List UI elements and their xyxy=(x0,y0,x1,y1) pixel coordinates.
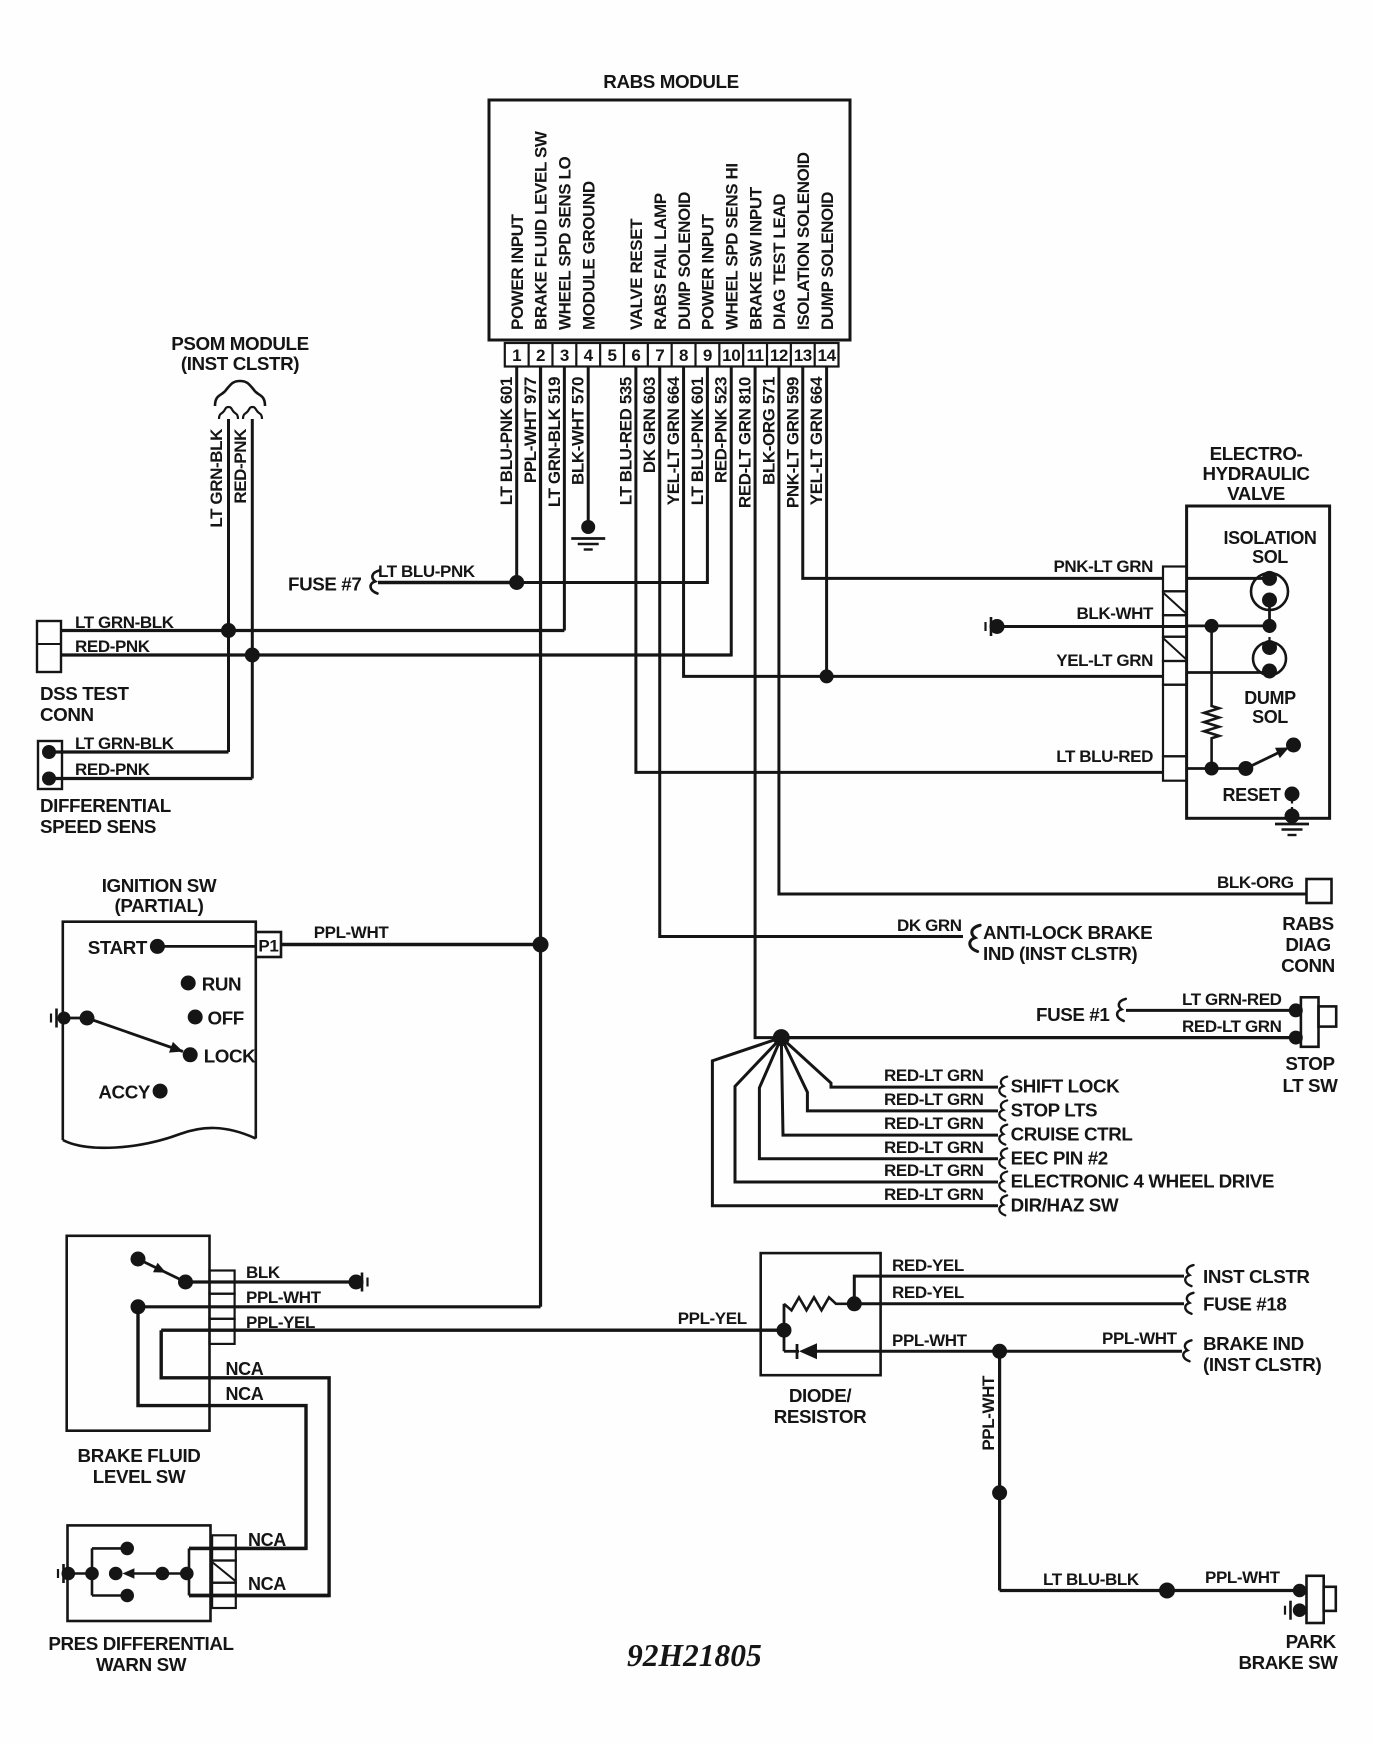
dump solenoid circle L2 xyxy=(1253,642,1286,675)
wire BLK xyxy=(186,1280,357,1283)
resistor R-valve xyxy=(1204,629,1219,766)
svg-text:ELECTRO-: ELECTRO- xyxy=(1210,443,1303,464)
junction DSS RED-PNK xyxy=(245,648,260,663)
RABS module pin function labels xyxy=(508,130,837,330)
svg-text:DIODE/: DIODE/ xyxy=(789,1385,852,1406)
svg-text:PNK-LT GRN 599: PNK-LT GRN 599 xyxy=(783,377,802,508)
junction PPL-WHT down xyxy=(992,1344,1007,1359)
wire branch ELECTRONIC 4WD xyxy=(735,1038,998,1182)
wire RED-LT GRN main xyxy=(781,1036,1296,1039)
wire PPL-YEL xyxy=(161,1328,784,1331)
svg-text:FUSE #7: FUSE #7 xyxy=(288,574,361,595)
diode/resistor box xyxy=(761,1253,881,1375)
svg-text:PPL-WHT: PPL-WHT xyxy=(246,1288,322,1307)
wire DIFF LT GRN-BLK xyxy=(42,745,56,759)
junction DSS LT GRN-BLK xyxy=(221,623,236,638)
squiggle ELECTRONIC 4 WHEEL DRIVE xyxy=(999,1172,1007,1192)
svg-text:EEC PIN #2: EEC PIN #2 xyxy=(1011,1147,1108,1168)
squiggle STOP LTS xyxy=(999,1100,1007,1120)
wire BLK-WHT xyxy=(997,625,1187,628)
wire NCA4 row xyxy=(189,1594,329,1597)
svg-text:2: 2 xyxy=(536,346,545,365)
svg-text:DSS TEST: DSS TEST xyxy=(40,683,130,704)
svg-text:RESET: RESET xyxy=(1223,785,1281,805)
wire NCA2 path xyxy=(138,1307,306,1549)
svg-text:9: 9 xyxy=(703,346,712,365)
wire PPL-WHT vertical xyxy=(998,1351,1001,1590)
reset dashed to ground xyxy=(1291,800,1293,811)
connector P1 xyxy=(256,932,281,957)
svg-text:1: 1 xyxy=(512,346,521,365)
resistor R1 xyxy=(784,1297,854,1310)
brake fluid switch arm xyxy=(131,1252,146,1267)
wire pin11 RED-LT GRN 810 xyxy=(755,367,781,1038)
wire branch EEC PIN 2 xyxy=(759,1038,998,1159)
RABS module U1 box xyxy=(489,100,850,340)
DSS test connector xyxy=(37,621,61,672)
pres diff connector diagonal xyxy=(212,1562,236,1581)
wire isolation sol to blk-wht node xyxy=(1268,600,1271,626)
svg-text:DIAG: DIAG xyxy=(1285,934,1330,955)
svg-text:PPL-WHT: PPL-WHT xyxy=(1102,1329,1178,1348)
svg-text:DIR/HAZ SW: DIR/HAZ SW xyxy=(1011,1194,1119,1215)
svg-text:WARN SW: WARN SW xyxy=(96,1654,187,1675)
svg-text:IGNITION SW: IGNITION SW xyxy=(102,875,217,896)
svg-text:BLK-WHT 570: BLK-WHT 570 xyxy=(569,377,588,485)
diode D1 xyxy=(784,1350,799,1353)
svg-text:RED-PNK: RED-PNK xyxy=(231,428,250,504)
svg-text:BRAKE FLUID LEVEL SW: BRAKE FLUID LEVEL SW xyxy=(532,130,551,330)
splice LT BLU-BLK / PPL-WHT xyxy=(1159,1583,1175,1599)
svg-text:RED-YEL: RED-YEL xyxy=(892,1256,964,1275)
svg-text:14: 14 xyxy=(818,346,837,365)
svg-text:LT BLU-BLK: LT BLU-BLK xyxy=(1043,1570,1140,1589)
svg-text:CONN: CONN xyxy=(1281,955,1335,976)
svg-text:PPL-WHT: PPL-WHT xyxy=(1205,1568,1281,1587)
squiggle BRAKE IND xyxy=(1183,1340,1191,1361)
svg-text:NCA: NCA xyxy=(248,1530,286,1550)
valve connector cells xyxy=(1163,567,1187,781)
svg-text:(PARTIAL): (PARTIAL) xyxy=(115,895,204,916)
stop lt sw connector xyxy=(1289,1003,1303,1017)
svg-text:YEL-LT GRN 664: YEL-LT GRN 664 xyxy=(664,376,683,505)
wire pin12 BLK-ORG 571 xyxy=(779,367,1307,895)
svg-text:SHIFT LOCK: SHIFT LOCK xyxy=(1011,1076,1121,1097)
svg-text:92H21805: 92H21805 xyxy=(627,1638,762,1673)
svg-text:LT BLU-PNK 601: LT BLU-PNK 601 xyxy=(497,377,516,505)
ground for BLK-WHT xyxy=(990,619,1005,634)
svg-text:(INST CLSTR): (INST CLSTR) xyxy=(1203,1354,1321,1375)
junction resistor top xyxy=(1205,619,1219,633)
svg-text:ISOLATION SOLENOID: ISOLATION SOLENOID xyxy=(794,152,813,330)
svg-text:SPEED SENS: SPEED SENS xyxy=(40,816,156,837)
svg-text:SOL: SOL xyxy=(1252,707,1288,727)
svg-text:6: 6 xyxy=(631,346,640,365)
wire DSS RED-PNK xyxy=(61,653,731,656)
wire branch CRUISE CTRL xyxy=(781,1038,998,1136)
svg-text:DK GRN: DK GRN xyxy=(897,916,962,935)
svg-text:BLK-WHT: BLK-WHT xyxy=(1076,604,1154,623)
wire pin14 YEL-LT GRN 664 xyxy=(825,367,828,677)
svg-text:RED-LT GRN: RED-LT GRN xyxy=(884,1138,984,1157)
squiggle CRUISE CTRL xyxy=(999,1125,1007,1145)
squiggle anti-lock xyxy=(970,925,980,951)
PSOM brace small right xyxy=(243,407,262,419)
module ground symbol xyxy=(571,537,605,540)
svg-text:PSOM MODULE: PSOM MODULE xyxy=(171,333,309,354)
ignition OFF contact xyxy=(188,1010,203,1025)
svg-text:PPL-YEL: PPL-YEL xyxy=(678,1309,747,1328)
squiggle INST CLSTR xyxy=(1185,1265,1193,1286)
wire pin4 BLK-WHT 570 to module ground xyxy=(587,367,590,529)
ignition rotor arm xyxy=(64,1017,87,1020)
wire pin6 LT BLU-RED 535 xyxy=(636,367,1164,773)
svg-text:POWER INPUT: POWER INPUT xyxy=(508,213,527,330)
wire pin3 LT GRN-BLK 519 xyxy=(563,367,566,631)
wire branch DIR/HAZ xyxy=(712,1038,998,1206)
wire pin9 LT BLU-PNK 601 xyxy=(517,367,708,583)
svg-text:LT BLU-RED 535: LT BLU-RED 535 xyxy=(616,377,635,505)
svg-text:10: 10 xyxy=(722,346,740,365)
svg-text:INST CLSTR: INST CLSTR xyxy=(1203,1266,1310,1287)
splice PPL-WHT xyxy=(992,1485,1007,1500)
svg-text:PRES DIFFERENTIAL: PRES DIFFERENTIAL xyxy=(48,1633,233,1654)
svg-text:5: 5 xyxy=(608,346,617,365)
PSOM brace small left xyxy=(219,407,238,419)
wire LT GRN-RED xyxy=(1126,1009,1296,1012)
svg-text:RED-YEL: RED-YEL xyxy=(892,1283,964,1302)
svg-text:SOL: SOL xyxy=(1252,547,1288,567)
brake fluid level sw box xyxy=(67,1236,210,1431)
svg-text:CONN: CONN xyxy=(40,704,94,725)
svg-text:POWER INPUT: POWER INPUT xyxy=(699,213,718,330)
svg-text:YEL-LT GRN 664: YEL-LT GRN 664 xyxy=(807,376,826,505)
svg-text:LT GRN-BLK: LT GRN-BLK xyxy=(207,428,226,528)
wire FUSE7 to pin1 xyxy=(378,581,517,584)
svg-text:VALVE RESET: VALVE RESET xyxy=(627,218,646,330)
svg-text:PNK-LT GRN: PNK-LT GRN xyxy=(1053,557,1153,576)
ignition ACCY contact xyxy=(153,1084,168,1099)
svg-text:4: 4 xyxy=(584,346,594,365)
wire branch SHIFT LOCK xyxy=(781,1038,998,1088)
svg-text:DIFFERENTIAL: DIFFERENTIAL xyxy=(40,795,171,816)
wire RED-YEL 1 xyxy=(854,1276,1184,1304)
ignition ground xyxy=(55,1009,58,1028)
svg-text:LT GRN-RED: LT GRN-RED xyxy=(1182,990,1282,1009)
svg-text:HYDRAULIC: HYDRAULIC xyxy=(1203,463,1311,484)
wire LT BLU-BLK xyxy=(1000,1589,1300,1592)
wire branch STOP LTS xyxy=(781,1038,998,1111)
svg-text:BLK: BLK xyxy=(246,1263,281,1282)
electro-hydraulic valve box xyxy=(1187,506,1330,818)
ignition RUN contact xyxy=(181,976,196,991)
svg-text:IND (INST CLSTR): IND (INST CLSTR) xyxy=(983,943,1137,964)
svg-text:FUSE #1: FUSE #1 xyxy=(1036,1004,1109,1025)
wire PPL-WHT brake fluid xyxy=(131,1299,146,1314)
wire LT BLU-RED row xyxy=(1187,767,1246,770)
RABS diag connector box xyxy=(1307,879,1332,903)
svg-text:LT BLU-PNK 601: LT BLU-PNK 601 xyxy=(688,377,707,505)
svg-text:PARK: PARK xyxy=(1286,1631,1337,1652)
pres diff ground xyxy=(62,1564,65,1583)
valve connector diagonal 2 xyxy=(1163,638,1187,660)
module ground dot xyxy=(581,520,595,534)
svg-text:RED-LT GRN: RED-LT GRN xyxy=(884,1114,984,1133)
svg-text:RED-LT GRN: RED-LT GRN xyxy=(884,1185,984,1204)
park brake ground xyxy=(1289,1601,1292,1620)
reset switch SW-valve xyxy=(1238,761,1253,776)
svg-text:PPL-WHT 977: PPL-WHT 977 xyxy=(521,377,540,483)
wire NCA1 path xyxy=(161,1330,329,1595)
svg-text:DK GRN 603: DK GRN 603 xyxy=(640,377,659,473)
svg-text:PPL-WHT: PPL-WHT xyxy=(979,1375,998,1451)
svg-text:RUN: RUN xyxy=(202,974,242,995)
wire pin8 YEL-LT GRN 664 xyxy=(684,367,1164,677)
svg-text:LT BLU-PNK: LT BLU-PNK xyxy=(378,562,476,581)
junction RED-YEL xyxy=(847,1296,862,1311)
svg-text:YEL-LT GRN: YEL-LT GRN xyxy=(1056,651,1153,670)
svg-text:ACCY: ACCY xyxy=(98,1082,150,1103)
svg-text:NCA: NCA xyxy=(226,1359,264,1379)
squiggle EEC PIN #2 xyxy=(999,1148,1007,1168)
BLK ground xyxy=(349,1275,364,1290)
wire PPL-WHT diode out xyxy=(817,1350,1182,1353)
ignition LOCK contact xyxy=(183,1047,198,1062)
svg-text:BRAKE SW INPUT: BRAKE SW INPUT xyxy=(746,186,765,330)
svg-text:DUMP: DUMP xyxy=(1244,688,1296,708)
svg-text:RED-LT GRN: RED-LT GRN xyxy=(884,1066,984,1085)
pres differential warn sw box xyxy=(68,1525,211,1621)
pres diff inner contacts xyxy=(68,1572,92,1575)
svg-text:RABS MODULE: RABS MODULE xyxy=(603,71,738,92)
svg-text:PPL-WHT: PPL-WHT xyxy=(314,923,390,942)
wire PPL-WHT ignition xyxy=(281,943,541,947)
svg-text:LT GRN-BLK 519: LT GRN-BLK 519 xyxy=(545,377,564,507)
fuse F7 squiggle xyxy=(371,570,380,593)
svg-text:RABS FAIL LAMP: RABS FAIL LAMP xyxy=(651,193,670,330)
svg-text:LT SW: LT SW xyxy=(1282,1075,1338,1096)
svg-text:ISOLATION: ISOLATION xyxy=(1223,528,1316,548)
svg-text:BLK-ORG 571: BLK-ORG 571 xyxy=(759,377,778,485)
svg-text:(INST CLSTR): (INST CLSTR) xyxy=(181,353,299,374)
wire PSOM RED-PNK vertical xyxy=(251,419,254,779)
svg-text:FUSE #18: FUSE #18 xyxy=(1203,1294,1286,1315)
svg-text:NCA: NCA xyxy=(226,1384,264,1404)
svg-text:START: START xyxy=(88,937,148,958)
wire NCA3 row xyxy=(189,1547,306,1550)
junction resistor bottom xyxy=(1205,762,1219,776)
PSOM brace large xyxy=(215,381,265,406)
svg-text:8: 8 xyxy=(679,346,688,365)
svg-text:P1: P1 xyxy=(258,937,278,956)
node brake sw junction xyxy=(773,1029,790,1046)
svg-text:RED-LT GRN: RED-LT GRN xyxy=(884,1161,984,1180)
wire pin2 PPL-WHT 977 vertical xyxy=(539,367,542,1307)
svg-text:DIAG TEST LEAD: DIAG TEST LEAD xyxy=(770,194,789,330)
pres diff connector cells xyxy=(212,1535,236,1560)
svg-text:RABS: RABS xyxy=(1282,913,1334,934)
svg-text:BLK-ORG: BLK-ORG xyxy=(1217,873,1294,892)
wire DIFF RED-PNK xyxy=(42,772,56,786)
svg-text:MODULE GROUND: MODULE GROUND xyxy=(579,181,598,330)
svg-text:BRAKE SW: BRAKE SW xyxy=(1238,1652,1338,1673)
svg-text:BRAKE FLUID: BRAKE FLUID xyxy=(78,1445,201,1466)
svg-text:OFF: OFF xyxy=(208,1008,244,1029)
junction pin8/pin14 YEL-LT GRN xyxy=(820,669,834,683)
wire PSOM LT GRN-BLK vertical xyxy=(227,419,230,752)
svg-text:RED-LT GRN 810: RED-LT GRN 810 xyxy=(736,377,755,508)
svg-text:LEVEL SW: LEVEL SW xyxy=(93,1466,186,1487)
RABS module pin number boxes 1-14 xyxy=(505,343,839,367)
svg-text:3: 3 xyxy=(560,346,569,365)
svg-text:RED-LT GRN: RED-LT GRN xyxy=(884,1090,984,1109)
svg-text:13: 13 xyxy=(794,346,812,365)
svg-text:LT BLU-RED: LT BLU-RED xyxy=(1056,747,1153,766)
svg-text:RED-LT GRN: RED-LT GRN xyxy=(1182,1017,1282,1036)
wire pin1 LT BLU-PNK 601 xyxy=(515,367,518,583)
squiggle DIR/HAZ SW xyxy=(999,1195,1007,1215)
svg-text:BRAKE IND: BRAKE IND xyxy=(1203,1333,1304,1354)
brake fluid connector cells xyxy=(210,1271,235,1294)
junction PPL-WHT xyxy=(533,937,549,953)
wire DSS LT GRN-BLK xyxy=(61,629,564,632)
junction pin1 FUSE7 xyxy=(509,575,524,590)
svg-text:WHEEL SPD SENS HI: WHEEL SPD SENS HI xyxy=(722,163,741,330)
node PPL-YEL entry xyxy=(777,1323,792,1338)
park brake sw connector xyxy=(1293,1584,1307,1598)
wire colour labels below pins xyxy=(497,376,826,508)
svg-text:PPL-WHT: PPL-WHT xyxy=(892,1331,968,1350)
isolation solenoid circle L1 xyxy=(1187,577,1270,580)
squiggle SHIFT LOCK xyxy=(999,1077,1007,1097)
reset contact dot xyxy=(1285,787,1300,802)
svg-text:RED-PNK: RED-PNK xyxy=(75,760,151,779)
svg-text:NCA: NCA xyxy=(248,1574,286,1594)
svg-text:WHEEL SPD SENS LO: WHEEL SPD SENS LO xyxy=(556,157,575,330)
svg-text:DUMP SOLENOID: DUMP SOLENOID xyxy=(675,192,694,330)
svg-text:11: 11 xyxy=(746,346,763,365)
svg-text:DUMP SOLENOID: DUMP SOLENOID xyxy=(818,192,837,330)
svg-text:CRUISE CTRL: CRUISE CTRL xyxy=(1011,1124,1133,1145)
wire pin10 RED-PNK 523 xyxy=(61,367,731,656)
svg-text:STOP: STOP xyxy=(1285,1053,1334,1074)
wire pin13 PNK-LT GRN 599 xyxy=(803,367,1164,579)
svg-text:LOCK: LOCK xyxy=(204,1045,256,1066)
wire RED-YEL 2 xyxy=(854,1302,1184,1305)
svg-text:RED-PNK: RED-PNK xyxy=(75,637,151,656)
svg-text:ELECTRONIC 4 WHEEL DRIVE: ELECTRONIC 4 WHEEL DRIVE xyxy=(1011,1171,1274,1192)
differential speed sensor connector xyxy=(38,741,62,789)
svg-text:RESISTOR: RESISTOR xyxy=(774,1406,867,1427)
squiggle FUSE 18 xyxy=(1185,1293,1193,1314)
ignition sw box xyxy=(63,922,256,1140)
valve connector diagonal 1 xyxy=(1163,593,1187,615)
fuse F1 squiggle xyxy=(1117,999,1126,1021)
reset ground xyxy=(1275,823,1309,826)
svg-text:LT GRN-BLK: LT GRN-BLK xyxy=(75,734,175,753)
svg-text:STOP LTS: STOP LTS xyxy=(1011,1099,1098,1120)
wire pin7 DK GRN 603 xyxy=(660,367,963,937)
svg-text:RED-PNK 523: RED-PNK 523 xyxy=(712,377,731,483)
svg-text:12: 12 xyxy=(770,346,788,365)
svg-text:VALVE: VALVE xyxy=(1227,483,1285,504)
svg-text:ANTI-LOCK BRAKE: ANTI-LOCK BRAKE xyxy=(983,922,1152,943)
svg-text:7: 7 xyxy=(655,346,664,365)
wire YEL-LT GRN xyxy=(1187,671,1270,674)
dashed link to dump solenoid xyxy=(1268,629,1270,644)
